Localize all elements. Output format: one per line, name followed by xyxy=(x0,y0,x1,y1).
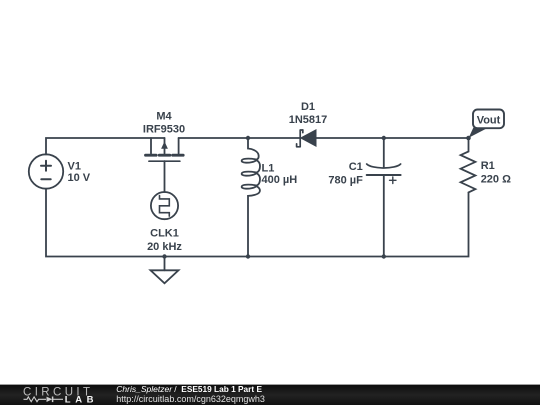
junction dot Vout node xyxy=(466,136,471,141)
CircuitLab logo text CIRCUIT xyxy=(23,386,93,398)
node Vout flag xyxy=(469,110,504,138)
svg-text:IRF9530: IRF9530 xyxy=(143,124,185,136)
junction dot L1 top xyxy=(246,136,250,140)
label D1 xyxy=(289,101,328,126)
svg-text:400 µH: 400 µH xyxy=(262,174,298,186)
footer bar xyxy=(0,385,540,405)
svg-text:LAB: LAB xyxy=(65,395,98,405)
svg-text:20 kHz: 20 kHz xyxy=(147,241,182,253)
wire top-right (M4 drain to Vout node) xyxy=(179,137,469,139)
label M4 xyxy=(143,111,185,136)
svg-text:Chris_Spletzer: Chris_Spletzer xyxy=(116,384,173,394)
diode D1 (Schottky, pointing left) xyxy=(297,130,316,147)
svg-text:220 Ω: 220 Ω xyxy=(481,174,511,186)
svg-text:CLK1: CLK1 xyxy=(150,228,179,240)
ground xyxy=(151,257,179,284)
voltage source V1 xyxy=(29,154,63,188)
svg-text:L1: L1 xyxy=(262,163,275,175)
footer title xyxy=(116,384,262,394)
wire top-left (V1 to M4) xyxy=(46,138,165,155)
svg-text:C1: C1 xyxy=(349,161,363,173)
inductor L1 xyxy=(242,138,260,257)
junction dot ground node xyxy=(162,254,166,258)
resistor R1 xyxy=(461,138,476,192)
svg-text:V1: V1 xyxy=(68,161,81,173)
label C1 xyxy=(328,161,363,187)
svg-text:D1: D1 xyxy=(301,101,315,113)
label L1 xyxy=(262,163,298,187)
svg-text:ESE519 Lab 1 Part E: ESE519 Lab 1 Part E xyxy=(181,384,262,394)
footer url xyxy=(116,394,265,404)
CircuitLab logo squiggle (resistor and diode) xyxy=(24,397,64,403)
svg-text:Vout: Vout xyxy=(477,115,501,127)
capacitor C1 (polarized) xyxy=(367,138,401,257)
label R1 xyxy=(481,160,511,186)
svg-text:780 µF: 780 µF xyxy=(328,175,363,187)
label CLK1 xyxy=(147,228,182,254)
svg-text:1N5817: 1N5817 xyxy=(289,114,328,126)
junction dot C1 top xyxy=(382,136,386,140)
label V1 value xyxy=(68,161,91,185)
svg-text:M4: M4 xyxy=(156,111,172,123)
junction dot C1 bottom xyxy=(382,254,386,258)
transistor M4 (PMOS) xyxy=(146,138,184,192)
clock source CLK1 xyxy=(151,192,178,219)
wire bottom rail xyxy=(46,189,469,257)
svg-text:http://circuitlab.com/cgn632eq: http://circuitlab.com/cgn632eqmgwh3 xyxy=(116,394,265,404)
svg-text:R1: R1 xyxy=(481,160,495,172)
junction dot L1 bottom xyxy=(246,254,250,258)
label Vout xyxy=(477,115,501,127)
svg-text:10 V: 10 V xyxy=(68,172,91,184)
CircuitLab logo text LAB xyxy=(65,395,98,405)
